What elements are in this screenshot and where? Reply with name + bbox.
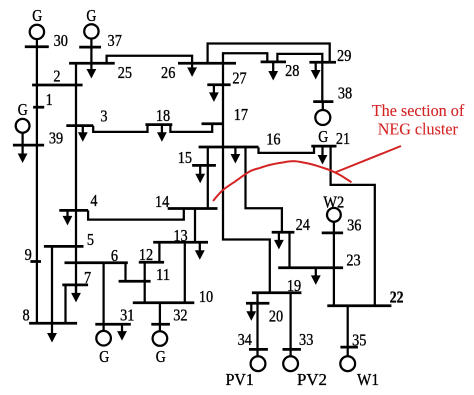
- wire 7-8: [64, 285, 66, 323]
- wire bus 38 to generator: [322, 102, 324, 111]
- load arrow bus 39: [18, 145, 28, 163]
- svg-text:12: 12: [139, 245, 153, 264]
- svg-text:5: 5: [87, 230, 94, 249]
- svg-text:G: G: [156, 347, 166, 366]
- bus 24 busbar: [272, 231, 295, 234]
- load arrow bus 8: [47, 323, 57, 342]
- bus 21 busbar: [311, 145, 336, 148]
- bus 35 busbar: [340, 346, 358, 349]
- bus 3 busbar: [66, 124, 93, 127]
- wire 28-29: [277, 54, 322, 62]
- generator G30 (bus 30): [30, 25, 44, 39]
- bus 34 busbar: [249, 348, 268, 351]
- generator G31 (bus 31): [96, 331, 111, 346]
- svg-text:NEG cluster: NEG cluster: [378, 120, 459, 139]
- load arrow bus 4: [63, 210, 73, 225]
- bus 10 busbar: [133, 301, 195, 304]
- load arrow bus 15: [195, 165, 205, 183]
- svg-text:32: 32: [173, 305, 187, 324]
- wire 26-27-17-16 vertical: [222, 63, 224, 147]
- wire 26-28: [223, 53, 267, 63]
- wire W2-36-23-22 vertical: [333, 221, 335, 305]
- solar generator PV2 (bus 33): [283, 356, 298, 371]
- wire 14-13: [194, 209, 196, 243]
- bus 30 busbar: [25, 45, 49, 48]
- svg-text:27: 27: [232, 68, 247, 87]
- svg-text:28: 28: [285, 61, 299, 80]
- load arrow bus 3: [78, 126, 88, 142]
- wire 18-17: [170, 124, 212, 132]
- svg-text:22: 22: [390, 288, 404, 307]
- svg-text:34: 34: [238, 330, 253, 349]
- load arrow bus 27: [209, 85, 219, 102]
- load arrow bus 28: [268, 62, 278, 81]
- load arrow bus 18: [157, 125, 167, 142]
- wire 4-14: [88, 209, 184, 220]
- svg-text:20: 20: [269, 306, 283, 325]
- bus 38 busbar: [313, 100, 333, 103]
- bus 15 busbar: [192, 164, 216, 167]
- bus 22 busbar: [327, 304, 391, 307]
- bus 14 busbar: [168, 207, 218, 210]
- svg-text:15: 15: [178, 148, 192, 167]
- svg-text:9: 9: [25, 245, 32, 264]
- bus 17 busbar: [202, 122, 225, 125]
- svg-text:G: G: [86, 6, 96, 25]
- bus 32 busbar: [151, 323, 170, 326]
- wire 16-24: [246, 147, 282, 232]
- svg-text:G: G: [99, 347, 109, 366]
- svg-text:17: 17: [234, 105, 249, 124]
- load arrow bus 29: [311, 62, 321, 79]
- svg-text:G: G: [32, 6, 42, 25]
- wire G39 to bus 39: [21, 132, 23, 145]
- bus 16 busbar: [199, 146, 259, 149]
- wire 13-10: [184, 242, 186, 303]
- wire 16-19: [223, 147, 270, 293]
- svg-text:38: 38: [338, 84, 352, 103]
- svg-text:16: 16: [266, 130, 280, 149]
- svg-text:4: 4: [90, 191, 98, 210]
- wire 24-23: [288, 232, 290, 268]
- generator G39 (bus 39): [16, 119, 30, 133]
- wire 19-20-34 vertical and PV1 feeder: [256, 293, 258, 357]
- bus 27 busbar: [207, 83, 230, 86]
- load arrow bus 23: [311, 268, 321, 285]
- wire 16-21: [259, 146, 315, 153]
- wind generator W1 (bus 35): [340, 356, 355, 371]
- svg-text:39: 39: [49, 129, 63, 148]
- wire 22-35 and W1 feeder: [347, 306, 349, 357]
- load arrow bus 31: [117, 324, 127, 340]
- wire 3-18: [93, 125, 147, 132]
- svg-text:10: 10: [199, 287, 213, 306]
- svg-text:W1: W1: [357, 370, 379, 389]
- svg-text:The section of: The section of: [372, 101, 465, 120]
- bus 31 busbar: [95, 323, 131, 326]
- generator G37 (bus 37): [84, 24, 98, 38]
- svg-text:26: 26: [161, 63, 175, 82]
- generator G32 (bus 32): [153, 331, 168, 346]
- svg-text:3: 3: [100, 107, 107, 126]
- bus 8 busbar: [29, 322, 77, 325]
- svg-text:23: 23: [346, 250, 360, 269]
- bus 20 busbar: [246, 302, 269, 305]
- svg-text:36: 36: [347, 216, 361, 235]
- wire 21-22: [331, 146, 375, 306]
- bus 13 busbar: [153, 241, 208, 244]
- svg-text:G: G: [18, 100, 28, 119]
- bus 23 busbar: [278, 266, 343, 269]
- wire 13-12: [158, 242, 160, 262]
- wire 26-29: [208, 44, 330, 64]
- svg-text:24: 24: [296, 215, 311, 234]
- node 9 tick: [30, 260, 41, 263]
- bus 39 busbar: [13, 144, 44, 147]
- svg-text:33: 33: [299, 330, 313, 349]
- wire 10-32 and generator feeder: [159, 303, 161, 331]
- svg-text:14: 14: [155, 192, 170, 211]
- svg-text:G: G: [318, 127, 328, 146]
- solar generator PV1 (bus 34): [251, 356, 266, 371]
- wire 6-11: [124, 263, 126, 282]
- svg-text:19: 19: [287, 276, 301, 295]
- bus 28 busbar: [261, 61, 286, 64]
- svg-text:1: 1: [46, 90, 53, 109]
- wire 6-31 and generator feeder: [102, 263, 104, 331]
- load arrow bus 24: [274, 232, 284, 249]
- wire 25-2-3-4-5-6-7 vertical: [75, 63, 77, 293]
- bus 2 busbar: [32, 84, 83, 87]
- bus 11 busbar: [119, 280, 151, 283]
- bus 29 busbar: [309, 61, 336, 64]
- wire 30-2-1-39-9-8 vertical: [36, 39, 38, 323]
- bus 18 busbar: [145, 123, 172, 126]
- svg-text:37: 37: [108, 31, 123, 50]
- svg-text:18: 18: [156, 106, 170, 125]
- svg-text:13: 13: [173, 226, 187, 245]
- wire G37 through bus 37 to bus 25: [90, 39, 92, 64]
- bus 26 busbar: [178, 62, 236, 65]
- svg-text:8: 8: [23, 306, 30, 325]
- wire 19-33 and PV2 feeder: [289, 293, 291, 357]
- bus 7 busbar: [62, 284, 88, 287]
- bus 5 busbar: [44, 245, 84, 248]
- node 1 tick: [33, 106, 44, 109]
- svg-text:11: 11: [156, 265, 170, 284]
- svg-text:29: 29: [337, 46, 351, 65]
- red boundary curve of NEG cluster: [213, 161, 352, 201]
- wire 12-11-10 vertical: [144, 262, 146, 303]
- wire 5-8: [51, 246, 53, 323]
- svg-text:PV1: PV1: [226, 370, 254, 389]
- wind generator W2 (bus 36): [327, 208, 341, 222]
- generator G38 (bus 38): [315, 110, 330, 125]
- bus 25 busbar: [69, 62, 115, 65]
- bus 33 busbar: [283, 348, 301, 351]
- wire 29-38: [321, 62, 323, 101]
- load arrow bus 25: [87, 63, 97, 78]
- bus 12 busbar: [139, 261, 164, 264]
- load arrow bus 26: [187, 63, 197, 77]
- svg-text:PV2: PV2: [297, 370, 327, 389]
- load arrow bus 13: [195, 242, 205, 260]
- svg-text:30: 30: [54, 31, 68, 50]
- load arrow bus 7: [71, 285, 81, 303]
- load arrow bus 20: [246, 303, 256, 321]
- svg-text:35: 35: [352, 331, 366, 350]
- bus 36 busbar: [322, 232, 343, 235]
- svg-text:31: 31: [120, 305, 134, 324]
- svg-text:25: 25: [118, 63, 132, 82]
- bus 6 busbar: [65, 261, 128, 264]
- bus 19 busbar: [252, 291, 302, 294]
- svg-text:7: 7: [84, 268, 92, 287]
- load arrow bus 16: [231, 147, 241, 164]
- svg-text:6: 6: [111, 246, 118, 265]
- load arrow bus 21: [318, 146, 328, 164]
- wire 16-15-14 vertical: [207, 147, 209, 209]
- red leader line to annotation text: [335, 146, 401, 173]
- bus 4 busbar: [59, 209, 88, 212]
- wire 25-26: [107, 56, 193, 64]
- svg-text:21: 21: [336, 129, 350, 148]
- svg-text:2: 2: [53, 66, 60, 85]
- bus 37 busbar: [79, 46, 101, 49]
